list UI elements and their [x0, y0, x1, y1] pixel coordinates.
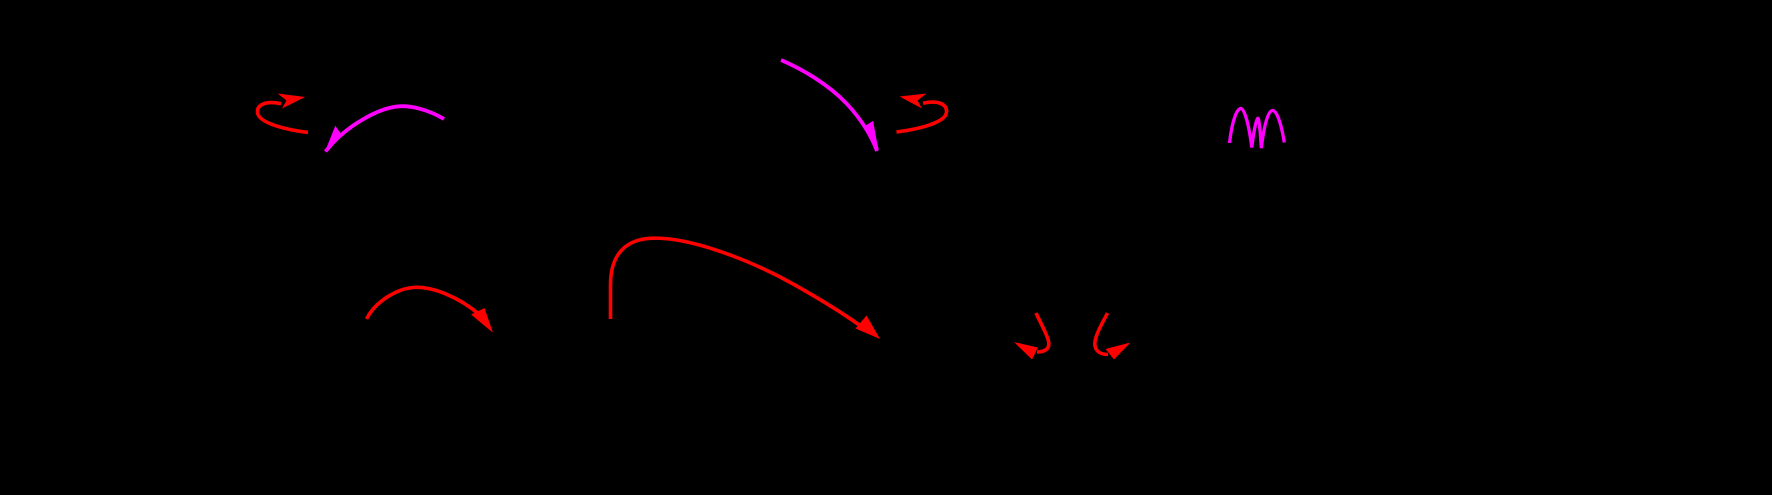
squiggle I (magenta "m" mark, top-right)	[1230, 108, 1285, 148]
curved arrow F (long red arrow, middle, head lower-right)	[611, 238, 881, 339]
curved arrow E (red arc, lower-left, head lower-right)	[367, 287, 494, 332]
curved arrow A (red curl, head pointing right, top-left)	[257, 94, 308, 133]
curved arrow G (small red J-hook, head pointing left)	[1014, 313, 1049, 360]
curved arrow D (red curl, head pointing left, mirror of A)	[897, 94, 947, 133]
curved arrow B (magenta arc, head at lower-left end)	[325, 106, 444, 152]
curved arrow C (magenta arc, head at bottom, top-middle-right)	[781, 60, 879, 152]
curved arrow H (small red J-hook, head pointing right)	[1095, 313, 1131, 360]
